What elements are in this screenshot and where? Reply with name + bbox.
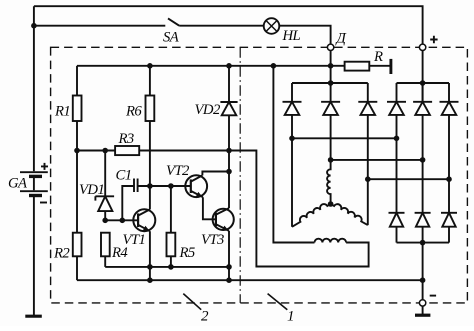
svg-text:C1: C1 [116,168,132,184]
node bus field feed [271,63,277,69]
transistor VT3 [213,208,234,231]
node bridge minus [420,240,426,246]
svg-text:GA: GA [8,176,28,192]
wire minus terminal to chassis [422,306,424,314]
node VT1 collector row [147,183,153,189]
node phase3 left [365,176,371,182]
battery minus sign [40,202,47,204]
wire stator phase3 [368,178,449,180]
svg-text:VD1: VD1 [79,182,104,198]
wire field winding return to bus [273,66,314,243]
wire VT3 emitter down [228,231,230,280]
node phase1 right [394,136,400,142]
wire VT1 emitter down [149,231,151,280]
node bus terminal D junction [328,63,334,69]
wire divider column to R2 [76,151,78,233]
wire SA feed [34,25,165,27]
wire VT2 collector to output column [202,172,229,176]
resistor R1 [76,66,78,96]
stator winding left arm [292,204,331,227]
diode aux 3 [367,83,369,102]
svg-text:VD2: VD2 [195,102,221,118]
node VD1 R4 base [102,218,108,224]
wire minus terminal column [422,243,424,300]
wire stator phase1 [292,137,397,139]
wire top positive rail [34,6,423,44]
svg-text:R3: R3 [118,131,134,147]
resistor R [345,62,370,71]
stator winding right arm [331,204,368,225]
svg-text:HL: HL [282,28,301,44]
resistor R4 [101,233,110,257]
wire bridge column2 [422,115,424,213]
node phase3 right [446,176,452,182]
wire phase3 column [367,115,369,225]
node star center [328,201,334,207]
wire auxiliary rectifier bus [292,82,368,84]
wire R6 to VT1 collector [149,121,151,209]
wire bridge column1 [396,115,398,213]
wire regulator top bus [77,65,331,67]
wire output to field winding [229,151,369,267]
diode VD2 [228,66,230,102]
ground chassis right [415,314,430,317]
plus sign generator [430,36,437,43]
stator winding phase2 coil [327,160,331,204]
node R3 VD1 [102,148,108,154]
node emitter VT1 sub-bus [147,264,153,270]
svg-text:R1: R1 [54,104,70,120]
node bus VD2 [226,63,232,69]
node phase2 left [328,157,334,163]
node emitter VT3 rail [226,277,232,283]
wire R4 bottom to emitter bus [104,256,106,267]
wire emitter sub-bus [105,266,229,268]
svg-text:R5: R5 [179,245,195,261]
wire bridge column3 [448,115,450,213]
svg-text:VT2: VT2 [166,163,190,179]
diode bridge top 3 [448,83,450,102]
lamp HL [264,18,280,34]
node R1 R3 junction [74,148,80,154]
diode bridge bottom 2 [415,213,431,227]
svg-text:2: 2 [201,309,209,325]
minus sign generator [430,295,436,297]
node phase1 left [289,136,295,142]
node VT2 VT3 collectors [226,169,232,175]
resistor R2 [73,233,82,257]
terminal D circle [327,44,333,50]
svg-text:SA: SA [163,29,180,45]
wire minus rail [77,279,423,281]
wire HL to terminal D [279,26,330,44]
wire R3 to output node [139,150,229,152]
dashed box generator unit 1 [51,47,468,303]
resistor R3 [77,150,115,152]
wire plus terminal column [422,51,424,102]
switch SA [168,18,179,25]
wire VT3 collector column [228,151,230,209]
tap bar terminal [389,59,392,74]
field winding inductor [315,239,347,243]
diode aux 1 [291,83,293,102]
wire phase2 upper column [330,115,332,160]
wire C1 right plate to VT2 base [138,185,191,187]
node bus R6 [147,63,153,69]
wire VT2 emitter to VT3 base [203,197,216,219]
wire left battery rail upper [33,6,35,171]
wire R2 to minus rail [76,256,78,280]
wire terminal D column [330,51,332,83]
dash-dot divider between regulator 2 and generator 1 [239,47,241,303]
ground chassis left [25,315,42,318]
node C1 base junction [120,218,126,224]
diode bridge bottom 1 [389,213,405,227]
node phase2 right [420,157,426,163]
wire main rectifier plus bus [397,82,450,84]
node plus column bus [420,80,426,86]
svg-text:1: 1 [287,309,295,325]
callout slash 1 [268,294,288,310]
battery GA [20,172,48,195]
resistor R6 [149,66,151,96]
node minus rail junction [420,277,426,283]
wire R1 to divider row [76,121,78,151]
wire base of VT1 [105,219,138,221]
zener diode VD1 [104,151,106,197]
node output 4way [226,148,232,154]
svg-text:R6: R6 [125,104,142,120]
diode bridge bottom 3 [441,213,457,227]
diode bridge top 1 [396,83,398,102]
node emitter VT1 rail [147,277,153,283]
wire SA to HL [179,25,264,27]
svg-text:Д: Д [335,31,348,47]
svg-text:R4: R4 [111,245,128,261]
resistor R lead [331,65,345,67]
terminal minus circle [419,300,425,306]
wire R to tap bar [369,65,390,67]
diode bridge top 2 [422,83,424,102]
resistor R5 [170,186,172,233]
battery plus sign [41,163,48,170]
wire stator phase2 [331,159,423,161]
node junction rail-SA [31,23,37,29]
svg-text:VT3: VT3 [201,232,224,248]
terminal plus circle [419,44,425,50]
node D column bus [328,80,334,86]
wire battery to chassis [33,197,35,316]
node R5 top row [168,183,174,189]
transistor VT2 [185,175,207,197]
svg-text:R2: R2 [53,246,70,262]
node VT3 emitter sub-bus [226,264,232,270]
diode aux 2 [330,83,332,102]
wire C1 left plate to base node [122,186,134,220]
transistor VT1 [133,209,155,231]
wire phase1 column [291,115,293,227]
capacitor C1 [134,179,138,193]
callout slash 2 [183,294,201,310]
svg-text:R: R [373,49,383,65]
wire bridge minus bus [397,242,450,244]
node R5 sub-bus [168,264,174,270]
